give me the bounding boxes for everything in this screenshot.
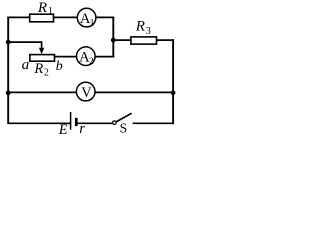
resistor R1 [30, 14, 54, 22]
node on right rail for voltmeter row [171, 90, 176, 95]
svg-text:S: S [120, 121, 128, 136]
svg-text:R: R [135, 19, 145, 35]
wire A2 to right vertical [95, 56, 114, 58]
svg-text:E: E [58, 122, 68, 137]
battery E short plate [75, 118, 78, 126]
battery E long plate [70, 112, 72, 130]
wire right rail [172, 39, 174, 124]
slider arrowhead onto R2 [39, 48, 44, 54]
switch S pivot circle [113, 121, 117, 125]
svg-text:2: 2 [44, 67, 49, 78]
wire voltmeter row right [95, 91, 174, 93]
rheostat R2 [30, 55, 55, 62]
svg-text:1: 1 [48, 6, 53, 17]
wire R1 to A1 [54, 16, 78, 18]
svg-text:b: b [56, 59, 63, 74]
wire left rail [7, 17, 9, 123]
ammeter A1 [77, 8, 96, 27]
svg-text:1: 1 [90, 18, 95, 28]
node junction of ammeters [111, 38, 116, 43]
wire vertical joining A1/A2 branch [112, 17, 114, 58]
wire slider tap from left rail [7, 41, 41, 43]
svg-text:3: 3 [146, 26, 151, 37]
wire battery to switch [78, 122, 113, 124]
voltmeter V [76, 82, 95, 101]
wire bottom row: rail to battery [7, 122, 70, 124]
wire slider arm vertical [41, 41, 43, 49]
wire R2 to A2 [55, 56, 78, 58]
wire voltmeter row left [7, 91, 77, 93]
node on left rail (tap) [6, 40, 11, 45]
svg-text:2: 2 [89, 57, 94, 67]
resistor R3 [131, 37, 157, 44]
ammeter A2 [77, 47, 96, 66]
wire A1 to right vertical [96, 16, 114, 18]
svg-text:a: a [22, 57, 30, 73]
wire switch to right rail [133, 122, 174, 124]
wire top row: rail to R1 [7, 16, 30, 18]
wire junction to R3 [113, 39, 131, 41]
svg-text:R: R [33, 61, 43, 77]
switch S lever [116, 113, 132, 122]
wire R3 to right rail [156, 39, 174, 41]
node on left rail for voltmeter row [6, 90, 11, 95]
svg-text:V: V [81, 85, 92, 101]
svg-text:R: R [37, 0, 47, 16]
